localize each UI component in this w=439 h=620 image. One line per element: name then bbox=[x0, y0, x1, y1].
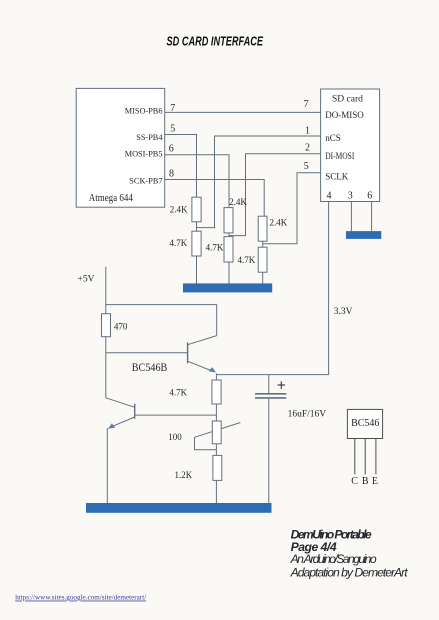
svg-text:2.4K: 2.4K bbox=[170, 205, 188, 215]
svg-text:DO-MISO: DO-MISO bbox=[325, 110, 364, 120]
svg-text:BC546B: BC546B bbox=[132, 360, 168, 374]
svg-text:470: 470 bbox=[114, 322, 128, 332]
svg-text:MOSI-PB5: MOSI-PB5 bbox=[125, 149, 163, 158]
svg-text:E: E bbox=[372, 476, 378, 487]
svg-text:C: C bbox=[351, 476, 358, 487]
svg-text:2.4K: 2.4K bbox=[270, 218, 288, 228]
svg-text:An Arduino/Sanguino: An Arduino/Sanguino bbox=[290, 552, 377, 566]
svg-text:1: 1 bbox=[305, 126, 310, 137]
svg-text:SD CARD INTERFACE: SD CARD INTERFACE bbox=[167, 34, 264, 48]
svg-text:SCLK: SCLK bbox=[325, 172, 349, 182]
svg-text:B: B bbox=[362, 476, 369, 487]
svg-text:4.7K: 4.7K bbox=[170, 238, 188, 248]
svg-text:Atmega 644: Atmega 644 bbox=[89, 193, 133, 204]
svg-text:2.4K: 2.4K bbox=[229, 197, 247, 207]
svg-text:SCK-PB7: SCK-PB7 bbox=[129, 176, 162, 185]
svg-text:7: 7 bbox=[304, 99, 309, 110]
svg-text:https://www.sites.google.com/s: https://www.sites.google.com/site/demete… bbox=[15, 593, 147, 602]
svg-text:Adaptation by DemeterArt: Adaptation by DemeterArt bbox=[290, 565, 409, 579]
svg-text:4.7K: 4.7K bbox=[206, 242, 224, 252]
svg-text:4.7K: 4.7K bbox=[169, 387, 187, 397]
svg-text:100: 100 bbox=[168, 432, 182, 442]
svg-text:SD card: SD card bbox=[332, 95, 363, 105]
svg-text:3: 3 bbox=[348, 191, 353, 202]
svg-text:8: 8 bbox=[169, 169, 174, 180]
svg-text:SS-PB4: SS-PB4 bbox=[136, 133, 163, 142]
svg-text:3.3V: 3.3V bbox=[334, 307, 353, 317]
svg-text:nCS: nCS bbox=[325, 133, 341, 143]
svg-text:16uF/16V: 16uF/16V bbox=[288, 409, 327, 419]
svg-text:MISO-PB6: MISO-PB6 bbox=[125, 106, 163, 115]
svg-text:5: 5 bbox=[304, 161, 309, 172]
svg-text:+5V: +5V bbox=[78, 275, 95, 285]
svg-text:DI-MOSI: DI-MOSI bbox=[325, 151, 354, 161]
svg-text:6: 6 bbox=[169, 144, 174, 155]
svg-text:7: 7 bbox=[170, 103, 175, 114]
svg-text:2: 2 bbox=[305, 143, 310, 154]
svg-text:4: 4 bbox=[327, 191, 332, 202]
svg-text:1.2K: 1.2K bbox=[175, 470, 193, 480]
svg-text:5: 5 bbox=[170, 123, 175, 134]
svg-text:4.7K: 4.7K bbox=[238, 255, 256, 265]
svg-text:6: 6 bbox=[367, 191, 372, 202]
svg-text:BC546: BC546 bbox=[351, 418, 379, 429]
